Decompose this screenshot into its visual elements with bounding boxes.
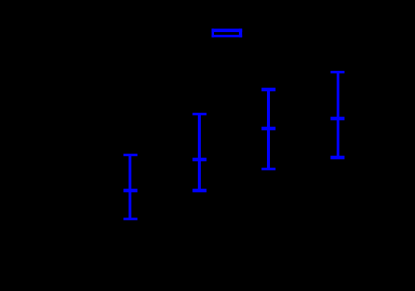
wire vertical line bar 4: [337, 72, 340, 157]
bottom cap bar 4: [331, 156, 345, 160]
top cap bar 3: [262, 88, 276, 92]
mid tick box bar 3: [262, 127, 276, 131]
top cap bar 4: [331, 71, 345, 74]
mid tick box bar 4: [331, 117, 345, 121]
mid tick box bar 1: [123, 189, 137, 193]
error bar 1: [123, 154, 137, 221]
bottom cap bar 1: [123, 218, 137, 221]
error bar 4: [331, 71, 345, 159]
legend box left edge: [212, 29, 214, 38]
top cap bar 1: [123, 154, 137, 157]
error bar 2: [193, 113, 207, 193]
legend box (candlestick key sample): [212, 29, 243, 38]
wire vertical line bar 3: [267, 90, 270, 170]
wire vertical line bar 2: [198, 114, 201, 190]
legend box right edge: [239, 29, 242, 38]
bottom cap bar 3: [262, 168, 276, 171]
error bar 3: [262, 88, 276, 171]
wire vertical line bar 1: [129, 155, 132, 219]
legend box top edge: [212, 29, 243, 32]
legend box bottom edge: [212, 35, 243, 38]
bottom cap bar 2: [193, 189, 207, 193]
mid tick box bar 2: [193, 158, 207, 162]
top cap bar 2: [193, 113, 207, 116]
